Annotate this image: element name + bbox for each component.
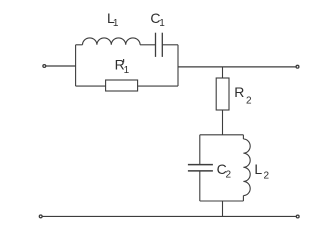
svg-text:L: L bbox=[254, 161, 262, 177]
svg-text:1: 1 bbox=[159, 18, 165, 29]
svg-text:R: R bbox=[234, 84, 244, 100]
svg-text:2: 2 bbox=[246, 96, 252, 107]
svg-text:1: 1 bbox=[124, 65, 130, 76]
svg-text:1: 1 bbox=[113, 18, 119, 29]
svg-text:2: 2 bbox=[226, 170, 232, 181]
svg-text:2: 2 bbox=[264, 171, 270, 182]
